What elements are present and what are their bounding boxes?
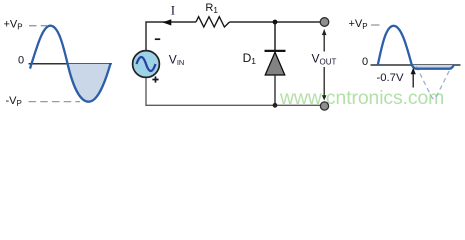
plus sign of source (152, 76, 158, 82)
resistor R1 zigzag (196, 17, 230, 27)
Vout arrowhead down (322, 95, 327, 100)
axis (right plot) (371, 64, 461, 66)
current arrow I (162, 19, 171, 25)
junction dot top (273, 20, 278, 25)
diode D1 top lead (274, 22, 276, 50)
diode D1 triangle (265, 52, 285, 75)
top wire (146, 22, 321, 50)
dashed level -Vp (left plot) (29, 101, 80, 103)
output terminal top (320, 18, 329, 27)
axis (left plot) (29, 63, 112, 65)
junction dot bottom (273, 103, 278, 108)
diode D1 cathode bar (265, 50, 286, 52)
bottom wire (146, 78, 321, 105)
input sine curve (30, 26, 110, 102)
svg-text:0: 0 (18, 54, 24, 66)
AC source V1 circle (133, 51, 160, 78)
output waveform curve (right plot) (378, 26, 454, 69)
arrow to -0.7V level (412, 74, 414, 88)
svg-text:0: 0 (362, 56, 368, 68)
dashed level +Vp (left plot) (29, 25, 47, 27)
fill negative half of input sine (68, 64, 111, 102)
fill clipped band (right plot) (412, 65, 454, 68)
minus sign of source (155, 38, 160, 40)
AC source sine symbol (137, 57, 156, 71)
dashed level +Vp (right plot) (371, 24, 380, 26)
Vout arrow lower segment (323, 67, 325, 96)
svg-text:-0.7V: -0.7V (377, 72, 404, 84)
Vout arrowhead up (322, 29, 327, 35)
Vout arrow upper segment (323, 35, 325, 52)
phantom clipped negative half (dashed) (416, 66, 451, 99)
output terminal bottom (320, 102, 328, 110)
diode D1 bottom lead (274, 75, 276, 105)
svg-text:I: I (171, 3, 175, 18)
